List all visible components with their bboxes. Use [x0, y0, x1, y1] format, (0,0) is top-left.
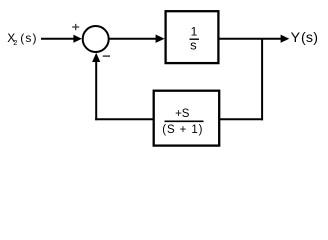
wire block G1 to output: [220, 38, 282, 40]
svg-text:s: s: [190, 38, 197, 53]
node X2(s) input label: [7, 31, 37, 47]
block G1 value 1/s: [190, 25, 200, 53]
wire feedback riser up to summing junction: [95, 61, 97, 120]
arrowhead to output: [281, 35, 290, 43]
arrowhead into summing junction: [73, 35, 82, 43]
arrowhead into block G1: [156, 35, 165, 43]
svg-text:Y: Y: [291, 30, 301, 46]
block H1 value +S/(S+1): [162, 108, 203, 136]
wire input to summing junction: [41, 38, 75, 40]
minus sign at feedback input: [103, 55, 110, 57]
plus sign at summing input: [72, 24, 79, 30]
svg-text:1: 1: [191, 25, 198, 39]
block G1 box: [166, 11, 219, 63]
svg-text:(S + 1): (S + 1): [162, 124, 203, 136]
svg-text:(s): (s): [20, 31, 37, 45]
summing junction: [83, 26, 109, 52]
wire block H1 left side to feedback riser: [95, 118, 154, 120]
arrowhead into summing junction bottom: [92, 53, 100, 62]
node Y(s) output label: [291, 30, 319, 46]
svg-text:2: 2: [13, 38, 17, 47]
wire summing junction to block G1: [109, 38, 157, 40]
svg-text:+S: +S: [175, 108, 190, 120]
wire branch down from output: [261, 38, 263, 120]
block H1 box: [154, 91, 220, 146]
svg-text:(s): (s): [301, 30, 318, 46]
wire branch to block H1 right side: [220, 118, 263, 120]
